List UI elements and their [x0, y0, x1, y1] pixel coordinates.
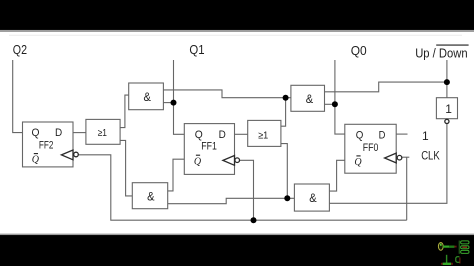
- svg-text:Q0: Q0: [351, 44, 367, 58]
- svg-text:Up / Down: Up / Down: [415, 46, 467, 60]
- svg-text:Q: Q: [32, 127, 40, 139]
- svg-text:1: 1: [422, 129, 429, 143]
- svg-text:D: D: [379, 129, 386, 141]
- svg-text:FF0: FF0: [363, 142, 379, 154]
- svg-text:Q: Q: [354, 157, 362, 168]
- svg-text:Q2: Q2: [13, 43, 27, 57]
- svg-text:≥1: ≥1: [98, 128, 108, 139]
- svg-text:CLK: CLK: [421, 151, 440, 163]
- svg-text:Q: Q: [195, 129, 203, 141]
- svg-text:&: &: [309, 191, 316, 205]
- svg-text:Q: Q: [32, 155, 40, 166]
- svg-text:&: &: [306, 92, 313, 106]
- svg-text:1: 1: [445, 102, 452, 116]
- svg-text:FF1: FF1: [201, 140, 217, 152]
- svg-text:Q1: Q1: [189, 43, 204, 57]
- svg-text:≥1: ≥1: [258, 131, 268, 142]
- svg-text:Q: Q: [194, 156, 202, 167]
- svg-text:D: D: [55, 127, 62, 139]
- svg-text:Q: Q: [356, 129, 364, 141]
- svg-text:FF2: FF2: [39, 139, 54, 151]
- svg-text:D: D: [219, 129, 226, 141]
- svg-text:&: &: [147, 190, 154, 204]
- svg-text:&: &: [144, 90, 151, 104]
